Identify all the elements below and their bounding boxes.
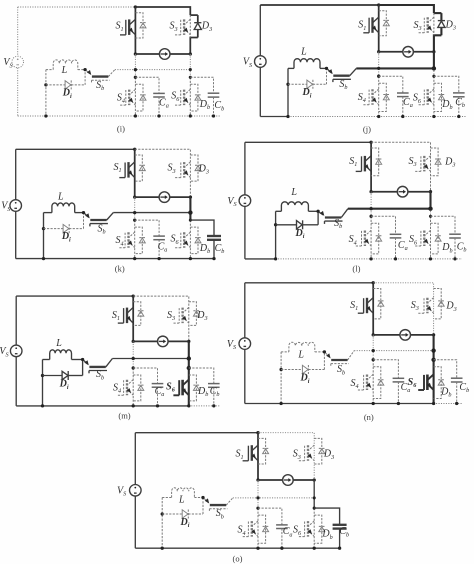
transistor Sb (i) [86, 70, 109, 83]
wire Sb emitter (k) [107, 213, 114, 220]
label S1 (m) [112, 310, 120, 322]
capacitor Ca (j) [397, 93, 409, 97]
label S4 (l) [349, 234, 357, 246]
wire Sb emitter (o) [226, 498, 233, 505]
node left end load line (n) [372, 333, 375, 336]
svg-text:(o): (o) [233, 553, 243, 563]
label D3 (l) [444, 156, 455, 168]
node boost node (n) [323, 350, 326, 353]
svg-text:S6: S6 [408, 377, 418, 389]
wire Cb to bottom (m) [213, 387, 215, 406]
svg-text:Ca: Ca [159, 98, 169, 110]
node Sb rail at S1 leg (n) [372, 349, 375, 352]
svg-text:Di: Di [302, 87, 312, 99]
transistor S1 (m) [118, 307, 133, 323]
svg-text:Sb: Sb [339, 79, 347, 91]
label Db (j) [441, 99, 452, 111]
diode Di (o) [182, 510, 188, 519]
capacitor Ca (n) [393, 378, 405, 382]
label VS (j) [243, 57, 252, 69]
wire boost left vertical (n) [280, 352, 282, 404]
svg-text:L: L [297, 350, 304, 361]
wire top rail right (n) [373, 283, 433, 335]
svg-text:Cb: Cb [214, 100, 224, 112]
wire top rail right (m) [133, 296, 189, 341]
wire left rail lower (k) [15, 211, 17, 258]
label Ca (k) [158, 241, 168, 253]
node bottom rail Ca (j) [401, 115, 404, 118]
node bottom rail boost (k) [42, 257, 45, 260]
wire left rail lower (o) [134, 496, 136, 548]
wire left rail lower (i) [17, 68, 19, 116]
transistor S4 (n) [358, 374, 373, 390]
wire top rail right (k) [135, 149, 191, 197]
transistor S3 (k) [175, 162, 190, 178]
label VS (m) [0, 346, 9, 358]
current source load (i) [159, 49, 170, 60]
wire Di right vertical (k) [83, 213, 85, 229]
label S4 (m) [113, 382, 121, 394]
current source load (k) [159, 192, 170, 203]
wire S3 leg below load (o) [313, 480, 315, 508]
wire L to node (n) [315, 351, 325, 353]
wire Di right vertical (m) [82, 360, 84, 376]
label Sb (l) [334, 218, 342, 230]
current source load (j) [403, 47, 414, 58]
node bottom rail boost (l) [274, 257, 277, 260]
wire Di branch left (j) [288, 83, 307, 85]
label S3 (l) [408, 156, 416, 168]
svg-text:S6: S6 [409, 234, 418, 246]
wire D3 top stub (j) [434, 12, 442, 14]
label Cb (j) [455, 97, 465, 109]
svg-text:VS: VS [227, 196, 236, 208]
node left end load line (m) [132, 340, 135, 343]
label S3 (k) [168, 163, 176, 175]
wire Sb rail (n) [354, 350, 433, 352]
diode Db (i) [190, 84, 201, 111]
label Ca (n) [401, 382, 411, 394]
node Sb rail at S1 leg (m) [132, 357, 135, 360]
transistor S1 (i) [120, 19, 135, 35]
node bottom rail S6 leg (o) [313, 547, 316, 550]
wire D3 branch lower (i) [197, 30, 199, 38]
svg-text:D3: D3 [323, 449, 334, 461]
wire load line right (l) [408, 191, 431, 193]
node left end load line (o) [256, 478, 259, 481]
wire boost left branch (i) [46, 69, 53, 71]
node bottom rail S4 leg (o) [256, 547, 259, 550]
node bottom rail S6 leg (k) [189, 257, 192, 260]
wire S1 leg (j) [378, 5, 380, 52]
wire Cb branch (j) [434, 76, 459, 93]
label D3 (k) [198, 163, 209, 175]
wire Di right vertical (n) [323, 352, 325, 370]
diode Di (j) [307, 80, 313, 89]
label S1 (n) [350, 300, 358, 312]
label L (m) [55, 338, 62, 349]
diode S1 antiparallel (n) [373, 289, 384, 319]
node bottom rail S6 leg (m) [187, 404, 190, 407]
node bottom rail S4 leg (k) [133, 257, 136, 260]
wire S4 leg (l) [370, 216, 372, 259]
node S4 cell top (m) [132, 366, 135, 369]
svg-text:L: L [290, 187, 297, 198]
wire Sb rail (j) [356, 67, 434, 69]
inductor L (j) [294, 59, 320, 69]
diode Db (k) [190, 227, 201, 254]
node Di left junction (i) [44, 83, 47, 86]
wire Di branch left (l) [276, 224, 297, 226]
node top of S1 leg (l) [369, 141, 372, 144]
wire Ca to bottom (l) [395, 238, 397, 259]
label L (n) [297, 350, 304, 361]
svg-text:Sb: Sb [334, 218, 342, 230]
svg-text:Db: Db [197, 386, 208, 398]
label Cb (m) [210, 386, 220, 398]
svg-text:Ca: Ca [158, 241, 168, 253]
wire L to node (k) [75, 212, 84, 214]
wire S3 leg below load (k) [189, 197, 191, 220]
wire left rail lower (m) [15, 357, 17, 406]
diode S4 antiparallel (l) [371, 223, 382, 254]
wire Ca to bottom (n) [397, 382, 399, 404]
node right end load line (n) [432, 333, 435, 336]
label Db (i) [199, 99, 210, 111]
node top of S1 leg (k) [133, 148, 136, 151]
svg-text:D3: D3 [198, 163, 209, 175]
wire L to node (j) [320, 67, 327, 69]
node bottom rail Cb (m) [212, 404, 215, 407]
svg-text:Cb: Cb [457, 242, 467, 254]
wire S1 leg (m) [132, 296, 134, 341]
wire left rail upper (n) [244, 283, 246, 338]
wire S6 leg (l) [430, 216, 432, 259]
wire left rail upper (j) [259, 5, 261, 56]
wire bottom rail (i) [18, 115, 221, 117]
node bottom rail Cb (i) [212, 114, 215, 117]
wire D3 bottom step (i) [190, 38, 198, 55]
node S6 cell top (n) [431, 358, 435, 362]
label S1 (i) [116, 21, 124, 33]
wire top rail right (o) [258, 433, 314, 480]
wire boost left branch (l) [276, 210, 282, 212]
diode S1 antiparallel (o) [258, 438, 269, 464]
label Ca (i) [159, 98, 169, 110]
svg-text:VS: VS [0, 346, 9, 358]
wire top rail left (i) [18, 6, 136, 8]
capacitor Ca (k) [153, 236, 165, 240]
svg-text:Db: Db [441, 99, 452, 111]
label Di (i) [62, 88, 72, 100]
current source load (n) [400, 330, 411, 341]
wire Di branch right (i) [71, 84, 85, 86]
wire bottom rail (o) [135, 547, 339, 549]
capacitor Ca (l) [390, 234, 402, 238]
label Di (j) [302, 87, 312, 99]
svg-text:S3: S3 [411, 300, 419, 312]
inductor L (n) [289, 342, 315, 352]
wire load line right (m) [168, 340, 189, 342]
node right end load line (j) [432, 50, 435, 53]
wire Ca to bottom (m) [157, 387, 159, 406]
label S6 (j) [413, 93, 422, 105]
transistor S4 (m) [118, 380, 133, 396]
wire load line left (k) [135, 196, 159, 198]
capacitor Ca (m) [152, 384, 164, 388]
wire Di right vertical (o) [202, 498, 204, 515]
node bottom rail S4 leg (j) [377, 115, 380, 118]
svg-text:S4: S4 [115, 235, 123, 247]
label VS (k) [1, 201, 10, 213]
label Di (m) [59, 379, 69, 391]
svg-text:S3: S3 [408, 156, 416, 168]
svg-text:Db: Db [321, 529, 332, 541]
diode Di (m) [62, 371, 68, 380]
node left end load line (l) [369, 190, 372, 193]
wire load line left (n) [373, 334, 400, 336]
inductor L (k) [52, 203, 75, 213]
wire S4 leg (o) [257, 508, 259, 548]
wire D3 branch upper (i) [197, 15, 199, 23]
wire D3 branch lower (j) [440, 28, 442, 36]
node top of S1 leg (i) [134, 5, 137, 8]
wire boost left vertical (j) [287, 68, 289, 116]
label Di (k) [61, 231, 71, 243]
wire Di branch right (k) [69, 228, 83, 230]
label D3 (n) [445, 301, 456, 313]
svg-text:(m): (m) [118, 410, 130, 420]
node bottom rail Cb (l) [453, 257, 456, 260]
node S4 cell top (n) [372, 358, 375, 361]
svg-text:S3: S3 [170, 21, 178, 33]
wire Cb to bottom (k) [213, 240, 215, 259]
svg-text:S4: S4 [349, 234, 357, 246]
node right end load line (k) [189, 195, 192, 198]
label Sb (j) [339, 79, 347, 91]
label S6 (l) [409, 234, 418, 246]
label VS (l) [227, 196, 236, 208]
label S1 (j) [358, 20, 366, 32]
diode Di (n) [302, 365, 308, 374]
wire S3 leg below load (l) [429, 192, 431, 209]
label S4 (n) [350, 378, 358, 390]
wire Cb to bottom (l) [454, 238, 456, 259]
diode Db (m) [189, 375, 200, 401]
node bottom rail S4 leg (n) [372, 402, 375, 405]
node left end load line (j) [377, 50, 380, 53]
svg-text:Db: Db [199, 243, 210, 255]
node Sb rail at S3 leg (i) [189, 68, 192, 71]
voltage source VS (k) [10, 200, 22, 212]
wire Cb branch (l) [431, 216, 456, 234]
node Sb rail at S1 leg (j) [377, 67, 380, 70]
wire Sb emitter (i) [108, 70, 115, 77]
node left end load line (i) [134, 52, 137, 55]
wire top rail left (l) [245, 141, 371, 143]
transistor S6 (n) [418, 374, 433, 390]
wire Ca to bottom (k) [158, 240, 160, 259]
wire bottom rail (l) [245, 258, 276, 260]
node bottom rail boost (n) [279, 402, 282, 405]
wire load line right (j) [413, 51, 434, 53]
node bottom rail Cb (n) [455, 402, 458, 405]
label VS (i) [3, 57, 12, 69]
wire Ca branch (m) [133, 368, 157, 384]
node bottom rail Ca (o) [280, 547, 283, 550]
svg-text:VS: VS [117, 486, 126, 498]
svg-text:S1: S1 [113, 162, 121, 174]
wire Ca branch (o) [258, 508, 282, 525]
wire load line right (n) [411, 334, 434, 336]
node top of S1 leg (n) [372, 281, 375, 284]
label D3 (o) [323, 449, 334, 461]
diode Db (l) [431, 223, 442, 254]
diode Di (k) [63, 224, 69, 233]
node bottom rail Ca (k) [157, 257, 160, 260]
svg-text:Cb: Cb [455, 97, 465, 109]
wire Cb to bottom (o) [339, 529, 341, 549]
svg-text:S1: S1 [349, 156, 357, 168]
node S4 cell top (k) [133, 218, 136, 221]
svg-text:S1: S1 [350, 300, 358, 312]
svg-text:S3: S3 [167, 310, 175, 322]
svg-text:L: L [55, 338, 62, 349]
current source load (m) [158, 336, 169, 347]
wire left rail upper (m) [15, 296, 17, 345]
label subfigure (o) [233, 553, 243, 563]
label Di (n) [300, 373, 310, 385]
wire Cb branch (n) [434, 360, 457, 378]
label Cb (k) [215, 243, 225, 255]
diode S1 antiparallel (l) [371, 148, 382, 176]
label S3 (j) [413, 20, 421, 32]
wire D3 top stub (i) [190, 14, 198, 16]
node bottom rail Ca (m) [156, 404, 159, 407]
wire S1 leg below load (n) [372, 335, 374, 360]
wire load line left (m) [133, 340, 157, 342]
diode D3 (k) [190, 155, 201, 181]
wire L to node (l) [308, 210, 318, 212]
label VS (n) [227, 339, 236, 351]
transistor S4 (k) [119, 232, 134, 248]
transistor S4 (j) [363, 89, 378, 105]
wire Di right vertical (j) [326, 68, 328, 84]
label subfigure (l) [352, 263, 360, 273]
wire Cb to bottom (j) [458, 97, 460, 117]
svg-text:Di: Di [295, 228, 305, 240]
transistor S1 (o) [243, 445, 258, 461]
wire S1 leg below load (o) [257, 480, 259, 508]
label Sb (m) [96, 369, 104, 381]
node top of S1 leg (j) [377, 3, 380, 6]
wire Cb branch (k) [190, 220, 214, 236]
wire Ca branch (i) [135, 77, 159, 93]
node Sb rail at S3 leg (m) [187, 356, 191, 360]
diode D3 (o) [314, 438, 325, 464]
svg-text:D3: D3 [201, 21, 212, 33]
diode D3 (n) [434, 289, 445, 319]
node bottom rail Cb (o) [338, 547, 341, 550]
wire Di branch right (o) [188, 513, 203, 515]
wire Ca to bottom (o) [281, 528, 283, 548]
diode Di (l) [297, 220, 303, 229]
svg-text:Db: Db [440, 386, 451, 398]
wire Cb branch (i) [190, 77, 213, 93]
wire boost left branch (m) [43, 359, 50, 361]
svg-text:Sb: Sb [96, 80, 104, 92]
wire Ca branch (j) [379, 76, 403, 93]
wire load line left (i) [135, 53, 159, 55]
wire S3 leg to cell (j) [433, 68, 435, 76]
inductor L (l) [281, 202, 308, 212]
label D3 (i) [201, 21, 212, 33]
node top of S1 leg (m) [132, 294, 135, 297]
wire top rail right (j) [379, 5, 434, 13]
svg-text:Db: Db [441, 242, 452, 254]
node boost node (l) [316, 210, 319, 213]
node boost node (m) [81, 358, 84, 361]
diode D3 (i) [194, 23, 201, 30]
transistor Sb (k) [85, 213, 108, 226]
wire S6 leg (k) [189, 220, 191, 259]
wire Ca branch (k) [135, 220, 159, 236]
transistor S3 (n) [418, 298, 433, 314]
transistor S6 (j) [419, 89, 434, 105]
wire Di branch left (i) [46, 84, 65, 86]
svg-text:VS: VS [243, 57, 252, 69]
transistor S3 (i) [175, 19, 190, 35]
svg-text:S6: S6 [171, 91, 180, 103]
node Sb rail at S3 leg (n) [431, 348, 435, 352]
capacitor Cb (m) [208, 384, 220, 388]
wire boost left branch (n) [281, 351, 289, 353]
node left end load line (k) [133, 195, 136, 198]
wire top rail left (j) [260, 4, 378, 6]
node top of S1 leg (o) [256, 431, 259, 434]
wire S3 leg below load (m) [188, 341, 190, 406]
wire Sb emitter (m) [106, 359, 113, 367]
wire top rail left (k) [16, 148, 135, 150]
label S6 (o) [293, 525, 302, 537]
label subfigure (i) [117, 124, 125, 134]
node bottom rail S6 leg (n) [432, 402, 435, 405]
svg-text:S1: S1 [112, 310, 120, 322]
wire load line right (o) [293, 479, 314, 481]
label L (o) [178, 494, 185, 505]
wire Di branch right (n) [308, 369, 324, 371]
wire Di branch left (o) [162, 513, 182, 515]
svg-text:S6: S6 [170, 234, 179, 246]
wire Cb branch (o) [314, 508, 339, 525]
label S4 (k) [115, 235, 123, 247]
svg-text:S4: S4 [117, 92, 125, 104]
node Di left junction (j) [286, 83, 289, 86]
svg-text:S6: S6 [166, 381, 176, 393]
label Sb (n) [337, 364, 345, 376]
label S3 (n) [411, 300, 419, 312]
node S6 cell top (l) [429, 215, 432, 218]
node right end load line (o) [313, 478, 316, 481]
label Sb (i) [96, 80, 104, 92]
transistor Sb (n) [326, 353, 349, 367]
svg-text:Ca: Ca [283, 526, 293, 538]
wire bottom rail (j) [260, 116, 288, 118]
svg-text:L: L [178, 494, 185, 505]
label S1 (o) [235, 449, 243, 461]
svg-text:Di: Di [62, 88, 72, 100]
wire boost left vertical (k) [43, 213, 45, 259]
